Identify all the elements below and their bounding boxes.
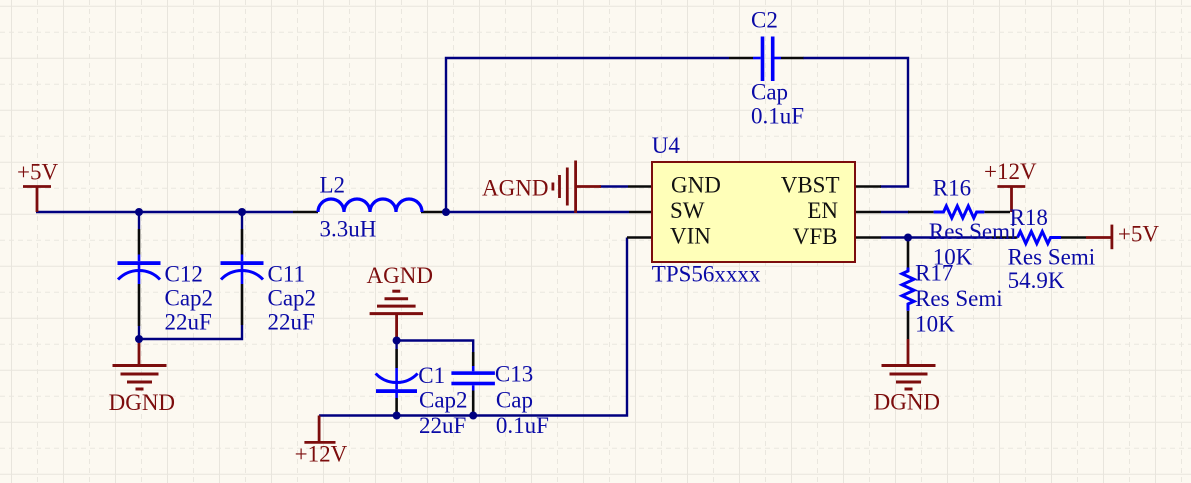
svg-text:54.9K: 54.9K bbox=[1008, 268, 1065, 293]
svg-text:Res Semi: Res Semi bbox=[915, 286, 1003, 311]
svg-text:Cap2: Cap2 bbox=[268, 285, 317, 310]
svg-text:Cap2: Cap2 bbox=[419, 388, 468, 413]
svg-text:GND: GND bbox=[671, 173, 721, 198]
svg-text:C12: C12 bbox=[165, 261, 203, 286]
svg-text:EN: EN bbox=[807, 198, 838, 223]
svg-text:Res Semi: Res Semi bbox=[929, 219, 1017, 244]
svg-text:Res Semi: Res Semi bbox=[1008, 245, 1096, 270]
svg-text:22uF: 22uF bbox=[268, 309, 315, 334]
svg-text:SW: SW bbox=[670, 198, 705, 223]
svg-text:3.3uH: 3.3uH bbox=[320, 216, 377, 241]
svg-text:AGND: AGND bbox=[367, 263, 433, 288]
svg-text:Cap2: Cap2 bbox=[165, 285, 214, 310]
svg-text:R18: R18 bbox=[1010, 205, 1048, 230]
svg-text:L2: L2 bbox=[320, 172, 346, 197]
svg-text:R17: R17 bbox=[915, 260, 953, 285]
svg-text:C11: C11 bbox=[268, 261, 306, 286]
svg-text:U4: U4 bbox=[652, 133, 681, 158]
svg-text:22uF: 22uF bbox=[165, 309, 212, 334]
svg-text:+12V: +12V bbox=[295, 442, 348, 467]
svg-text:VFB: VFB bbox=[793, 224, 838, 249]
svg-text:+12V: +12V bbox=[984, 159, 1037, 184]
svg-text:DGND: DGND bbox=[874, 390, 940, 415]
svg-text:Cap: Cap bbox=[751, 80, 788, 105]
svg-text:+5V: +5V bbox=[1118, 222, 1159, 247]
svg-text:C1: C1 bbox=[418, 363, 445, 388]
svg-text:AGND: AGND bbox=[482, 175, 548, 200]
svg-text:VBST: VBST bbox=[781, 173, 840, 198]
svg-text:TPS56xxxx: TPS56xxxx bbox=[652, 262, 761, 287]
svg-text:R16: R16 bbox=[933, 176, 971, 201]
svg-text:10K: 10K bbox=[915, 312, 955, 337]
svg-text:VIN: VIN bbox=[670, 224, 711, 249]
svg-text:+5V: +5V bbox=[17, 159, 58, 184]
svg-text:0.1uF: 0.1uF bbox=[751, 104, 804, 129]
svg-text:Cap: Cap bbox=[496, 388, 533, 413]
svg-text:0.1uF: 0.1uF bbox=[496, 413, 549, 438]
svg-text:22uF: 22uF bbox=[419, 413, 466, 438]
svg-text:DGND: DGND bbox=[109, 390, 175, 415]
svg-text:C13: C13 bbox=[495, 361, 533, 386]
svg-text:C2: C2 bbox=[751, 8, 778, 33]
